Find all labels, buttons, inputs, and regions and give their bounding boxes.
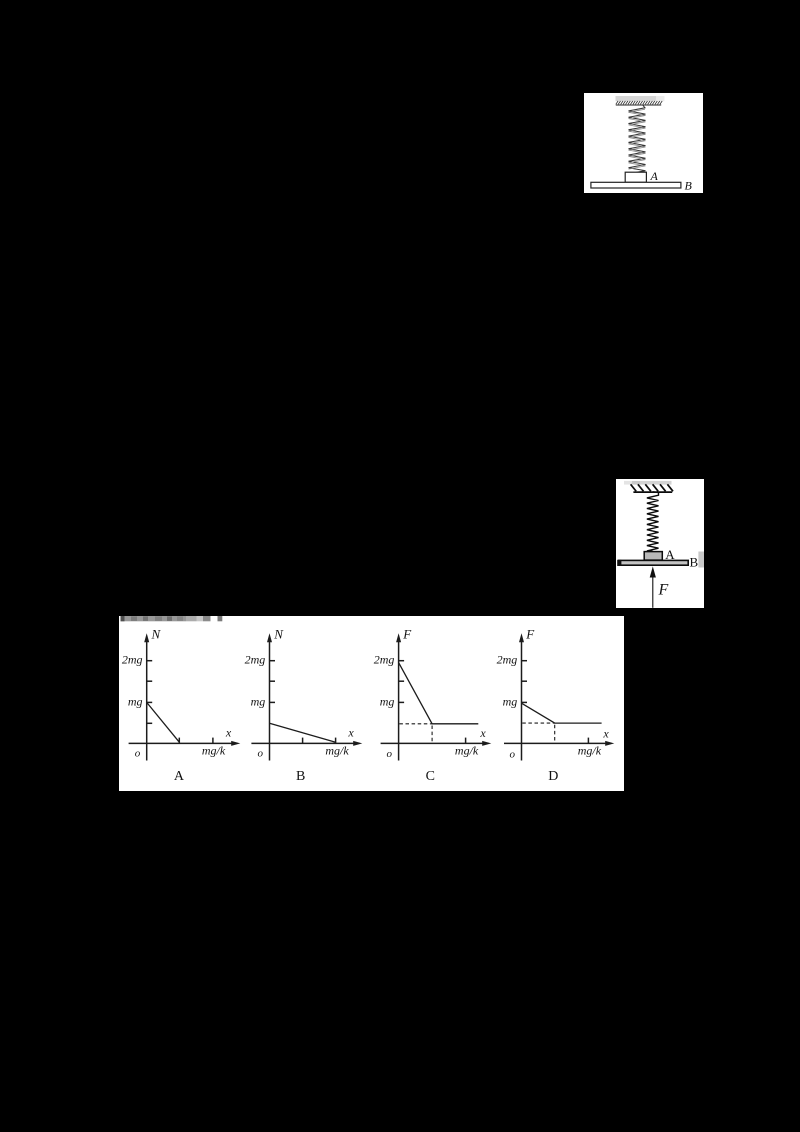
x tick C bbox=[465, 738, 467, 744]
noise strip top-left (blurred text remnants) bbox=[121, 616, 223, 621]
svg-text:mg/k: mg/k bbox=[578, 744, 602, 758]
ceiling hatching bbox=[631, 484, 673, 491]
x-axis A bbox=[129, 742, 235, 744]
y ticks A bbox=[147, 660, 153, 662]
svg-text:mg: mg bbox=[251, 694, 266, 708]
spring (sketchy double zigzag) bbox=[629, 105, 646, 172]
svg-text:mg: mg bbox=[503, 694, 518, 708]
x-axis C bbox=[381, 742, 486, 744]
axis arrowheads C bbox=[396, 633, 401, 642]
ceiling gray band bbox=[616, 96, 657, 101]
board B bbox=[591, 182, 681, 188]
ceiling gray band bbox=[624, 481, 632, 485]
svg-text:mg: mg bbox=[128, 694, 143, 708]
svg-text:2mg: 2mg bbox=[122, 653, 143, 667]
svg-text:B: B bbox=[690, 555, 699, 570]
svg-text:A: A bbox=[174, 769, 185, 784]
svg-text:C: C bbox=[426, 769, 435, 784]
force arrow F bbox=[652, 577, 654, 608]
board left dark cap bbox=[617, 560, 621, 566]
svg-text:A: A bbox=[650, 169, 659, 183]
svg-text:N: N bbox=[151, 627, 162, 642]
svg-text:D: D bbox=[548, 769, 558, 784]
x ticks A bbox=[178, 738, 180, 744]
svg-text:B: B bbox=[296, 769, 305, 784]
svg-text:B: B bbox=[685, 179, 693, 193]
svg-text:F: F bbox=[402, 627, 412, 642]
y-axis D bbox=[521, 638, 523, 761]
svg-text:x: x bbox=[347, 726, 354, 740]
x tick D bbox=[587, 738, 589, 744]
svg-text:o: o bbox=[135, 748, 141, 760]
axis arrowheads A bbox=[144, 633, 149, 642]
svg-text:A: A bbox=[665, 547, 675, 562]
svg-text:x: x bbox=[602, 727, 609, 741]
svg-text:2mg: 2mg bbox=[497, 653, 518, 667]
curve B: N falls from mg/2 to zero at mg/k bbox=[270, 723, 336, 742]
curve C: F falls from 2mg then constant bbox=[399, 663, 479, 724]
block A bbox=[625, 172, 646, 182]
graphs panel (options A-D) bbox=[119, 616, 624, 791]
gray blotch on right edge bbox=[698, 552, 704, 568]
block A (gray) bbox=[644, 552, 662, 561]
curve A: N falls from mg to zero at mg/2k bbox=[147, 702, 180, 742]
dashed helper lines D bbox=[522, 722, 554, 724]
spring bbox=[647, 492, 659, 552]
y-axis B bbox=[269, 638, 271, 761]
y-axis A bbox=[146, 638, 148, 761]
svg-text:N: N bbox=[273, 627, 284, 642]
svg-text:mg/k: mg/k bbox=[455, 744, 479, 758]
x ticks B bbox=[302, 738, 304, 744]
svg-text:x: x bbox=[225, 726, 232, 740]
svg-text:2mg: 2mg bbox=[245, 653, 266, 667]
y ticks C bbox=[399, 660, 405, 662]
y ticks D bbox=[522, 660, 528, 662]
axis arrowheads B bbox=[267, 633, 272, 642]
ceiling line bbox=[616, 104, 661, 106]
svg-text:2mg: 2mg bbox=[374, 653, 395, 667]
y ticks B bbox=[270, 660, 276, 662]
dashed helper lines C bbox=[399, 723, 432, 725]
svg-text:o: o bbox=[510, 749, 516, 761]
svg-text:mg: mg bbox=[380, 694, 395, 708]
svg-text:o: o bbox=[258, 748, 264, 760]
x-axis B bbox=[251, 742, 356, 744]
spring diagram 2 (spring from ceiling, block A on board B, force F up) bbox=[616, 479, 704, 608]
ceiling hatching bbox=[616, 101, 662, 104]
svg-text:mg/k: mg/k bbox=[202, 744, 226, 758]
y-axis C bbox=[398, 638, 400, 761]
board B (gray) bbox=[619, 560, 689, 565]
x-axis D bbox=[504, 742, 609, 744]
spring diagram 1 (spring from ceiling, block A on board B) bbox=[584, 93, 703, 193]
svg-text:o: o bbox=[387, 748, 393, 760]
axis arrowheads D bbox=[519, 633, 524, 642]
ceiling line bbox=[633, 491, 672, 493]
svg-text:F: F bbox=[525, 627, 535, 642]
svg-text:mg/k: mg/k bbox=[325, 744, 349, 758]
curve D: F falls from mg then constant bbox=[522, 703, 602, 723]
svg-text:F: F bbox=[658, 582, 669, 599]
svg-text:x: x bbox=[479, 726, 486, 740]
